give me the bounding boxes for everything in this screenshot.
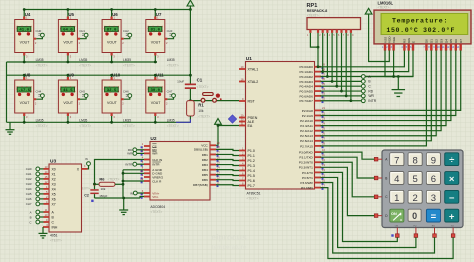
svg-text:<TEXT>: <TEXT> — [167, 124, 179, 128]
pin U2 VCC — [201, 141, 220, 148]
node RST junction — [189, 99, 192, 102]
svg-text:P1.5: P1.5 — [248, 174, 255, 178]
pin U3 X7 terminal CH7 — [26, 200, 56, 207]
wire GND rail row2 — [7, 121, 191, 123]
pin keypad column 1 — [396, 228, 400, 238]
pin U2 VIN+ — [141, 189, 160, 196]
pin U2 DB1 — [202, 150, 220, 157]
svg-text:0: 0 — [412, 211, 417, 221]
pin U1 P3.7/RD — [301, 183, 325, 190]
microcontroller U1 AT89C51 — [246, 56, 315, 200]
svg-text:VIN-: VIN- — [152, 195, 158, 199]
wire DB5 to P1.5 — [216, 174, 239, 177]
pin U1 P0.1/AD1 — [300, 67, 326, 74]
svg-text:X7: X7 — [52, 202, 56, 206]
wire RP1 pin2 to P0.0 — [318, 33, 321, 67]
resistor R1 — [187, 101, 211, 120]
wire LCD D7 to P2.0 — [321, 50, 461, 110]
svg-text:VOUT: VOUT — [151, 101, 162, 105]
wire LCD D0 to P2.7 — [321, 50, 427, 145]
svg-text:4: 4 — [394, 174, 399, 185]
svg-text:RST: RST — [248, 99, 256, 103]
svg-text:9: 9 — [431, 155, 436, 166]
pin U1 PSEN — [239, 113, 258, 120]
svg-text:INH: INH — [52, 225, 58, 229]
pin LCD VSS — [382, 37, 387, 51]
svg-text:P1.0: P1.0 — [248, 149, 255, 153]
svg-text:<TEXT>: <TEXT> — [197, 85, 209, 89]
wire LCD D6 to P2.1 — [321, 50, 456, 115]
svg-text:P2.3/A11: P2.3/A11 — [300, 124, 313, 128]
svg-text:PQ: PQ — [413, 225, 416, 227]
svg-text:Temperature:: Temperature: — [392, 17, 448, 24]
pin keypad column 3 — [433, 228, 437, 238]
pin U1 P2.7/A15 — [300, 142, 325, 149]
terminal WR at U2 — [127, 152, 144, 156]
wire GND left vertical — [6, 62, 8, 122]
pin U3 X5 terminal CH5 — [26, 190, 56, 197]
capacitor C2 — [78, 183, 108, 202]
LM35 temperature sensor U11 — [146, 73, 179, 128]
wire EA — [218, 125, 239, 127]
svg-text:P3.5/T1: P3.5/T1 — [302, 176, 313, 180]
pin RP1 7 — [340, 30, 344, 37]
pin U2 DB4 — [202, 165, 220, 172]
pin U1 P3.3/INT1 — [299, 163, 326, 170]
pin U1 XTAL1 — [239, 65, 258, 72]
svg-text:2: 2 — [412, 193, 417, 204]
svg-text:X2: X2 — [52, 177, 56, 181]
pin LCD D6 — [451, 39, 458, 51]
svg-text:P1.1: P1.1 — [248, 154, 255, 158]
pin U2 VIN- — [141, 192, 159, 199]
pin U2 D GND — [140, 169, 163, 176]
pin U3 X0 terminal CH0 — [26, 165, 56, 172]
pin U1 P2.4/A12 — [300, 126, 325, 133]
pin U1 P0.2/AD2 — [300, 72, 326, 79]
pin LCD RS — [401, 39, 406, 51]
pin RP1 2 — [317, 30, 321, 37]
svg-text:P2.6/A14: P2.6/A14 — [300, 139, 313, 143]
svg-text:U3: U3 — [50, 159, 56, 165]
svg-text:CH4: CH4 — [26, 187, 32, 191]
pin U1 P1.6 — [239, 176, 255, 183]
svg-text:<TEXT>: <TEXT> — [247, 196, 259, 200]
svg-text:ON: ON — [395, 225, 399, 227]
pin U3 INH to ground — [39, 224, 58, 238]
svg-text:<TEXT>: <TEXT> — [123, 63, 135, 67]
svg-text:<TEXT>: <TEXT> — [108, 177, 120, 181]
svg-text:LM35: LM35 — [123, 58, 131, 62]
svg-text:10uF: 10uF — [177, 79, 184, 83]
wire VCC vertical to C1 — [189, 10, 191, 85]
pin U1 P2.1/A9 — [302, 111, 326, 118]
terminal C at U1 — [337, 84, 372, 88]
wire GND rail row1 — [7, 61, 158, 63]
pin LCD D1 — [428, 39, 433, 51]
svg-text:VOUT: VOUT — [63, 101, 74, 105]
wire U2 ground rail — [95, 197, 141, 199]
pin U3 X4 terminal CH4 — [26, 185, 56, 192]
pin U1 P2.0/A8 — [302, 106, 326, 113]
pin U1 P2.5/A13 — [300, 132, 325, 139]
svg-text:P0.4/AD4: P0.4/AD4 — [300, 85, 314, 89]
pin U1 P3.6/WR — [300, 178, 325, 185]
wire DB7 to P1.7 — [216, 184, 239, 187]
svg-text:<TEXT>: <TEXT> — [36, 124, 48, 128]
ground at LCD — [397, 75, 400, 78]
pin RP1 5 — [331, 30, 335, 37]
pin U1 P1.1 — [239, 151, 255, 158]
resistor pack RP1 RESPACK-8 — [307, 3, 361, 30]
svg-text:RS: RS — [432, 225, 436, 227]
svg-text:VOUT: VOUT — [20, 101, 31, 105]
svg-text:X3: X3 — [52, 182, 56, 186]
svg-text:CH7: CH7 — [167, 90, 173, 94]
LM35 temperature sensor U6 — [102, 8, 135, 67]
svg-text:DB7(MSB): DB7(MSB) — [193, 183, 208, 187]
wire LCD D4 to P2.3 — [321, 50, 447, 125]
svg-text:WR: WR — [127, 152, 133, 156]
pin U2 CS — [141, 142, 157, 149]
pin U1 P0.7/AD7 — [300, 97, 326, 104]
pin U2 CLK R — [140, 177, 162, 184]
svg-text:VEE: VEE — [392, 37, 396, 43]
svg-text:LM35: LM35 — [36, 58, 44, 62]
svg-text:<TEXT>: <TEXT> — [198, 114, 210, 118]
svg-text:CH6: CH6 — [123, 90, 129, 94]
wire DB1 to P1.1 — [216, 154, 239, 155]
svg-text:VOUT: VOUT — [20, 41, 31, 45]
svg-text:VOUT: VOUT — [63, 41, 74, 45]
svg-text:P3.0/RXD: P3.0/RXD — [299, 151, 314, 155]
pin U1 P0.3/AD3 — [300, 77, 326, 84]
terminal INTR at U2 — [125, 162, 144, 166]
svg-text:U1: U1 — [246, 56, 252, 62]
wire RST row — [190, 100, 239, 102]
pin LCD D3 — [437, 39, 444, 51]
wire LCD D2 to P2.5 — [321, 50, 437, 135]
push button reset — [201, 93, 222, 103]
wire VSS to ground — [385, 50, 398, 76]
pin U2 DB7(MSB) — [193, 181, 220, 188]
svg-text:CH4: CH4 — [36, 90, 42, 94]
svg-text:D7: D7 — [459, 39, 463, 43]
svg-text:temperature: temperature — [212, 245, 247, 251]
pin U1 EA — [239, 121, 253, 128]
svg-text:CH2: CH2 — [123, 29, 129, 33]
svg-text:DB3: DB3 — [202, 163, 208, 167]
svg-text:CH3: CH3 — [26, 182, 32, 186]
pin U2 DB3 — [202, 160, 220, 167]
svg-text:6: 6 — [431, 174, 436, 185]
wire VCC to U2 — [216, 124, 218, 145]
ground at U2 — [123, 198, 125, 210]
svg-text:CH3: CH3 — [167, 29, 173, 33]
wire DB3 to P1.3 — [216, 164, 239, 167]
wire P0.2 to LCD E — [327, 50, 413, 76]
wire RP1 pin5 to P0.3 — [321, 33, 333, 81]
svg-text:LM35: LM35 — [123, 119, 131, 123]
svg-text:CH2: CH2 — [26, 177, 32, 181]
svg-text:IN: IN — [130, 191, 133, 195]
svg-text:C: C — [29, 220, 31, 224]
pin U3 B terminal — [30, 213, 55, 220]
svg-text:INTR: INTR — [125, 163, 133, 167]
pin RP1 6 — [336, 30, 340, 37]
pin U1 P1.3 — [239, 161, 255, 168]
wire D GND — [123, 172, 144, 174]
pin U1 P3.5/T1 — [302, 173, 325, 180]
wire VIN- to ground — [140, 197, 144, 199]
svg-text:DB6: DB6 — [202, 178, 208, 182]
svg-text:-17.5: -17.5 — [18, 89, 31, 93]
svg-text:CH0: CH0 — [26, 167, 32, 171]
pin U3 C terminal — [29, 218, 54, 225]
svg-text:XTAL1: XTAL1 — [248, 67, 259, 71]
pin keypad row D — [374, 214, 382, 218]
wire R1 to ground rail (blue elbow) — [176, 119, 190, 122]
pin U1 P0.4/AD4 — [300, 82, 326, 89]
terminal A at U1 — [361, 75, 413, 79]
svg-text:<TEXT>: <TEXT> — [167, 63, 179, 67]
svg-text:VOUT: VOUT — [107, 41, 118, 45]
svg-text:LM35: LM35 — [79, 119, 87, 123]
svg-text:LM35: LM35 — [36, 119, 44, 123]
power terminal VCC for LCD — [365, 8, 372, 14]
pin U1 P0.5/AD5 — [300, 87, 326, 94]
wire RP1 pin9 to P0.7 — [321, 33, 351, 101]
svg-text:INTR: INTR — [152, 163, 160, 167]
wire P3.1 to keypad row 2 — [321, 157, 375, 178]
wire P3.4 to keypad column 1 — [321, 172, 398, 241]
svg-text:D1: D1 — [430, 39, 434, 43]
wire DB2 to P1.2 — [216, 160, 239, 161]
svg-text:<TEXT>: <TEXT> — [50, 238, 62, 242]
svg-text:×: × — [449, 174, 455, 185]
pin U1 P3.4/T0 — [302, 168, 325, 175]
svg-text:CLK IN: CLK IN — [152, 158, 162, 162]
wire P3.6 to keypad column 3 — [321, 183, 435, 253]
svg-text:CH1: CH1 — [26, 172, 32, 176]
terminal B at U1 — [332, 79, 371, 83]
pin U2 DB2 — [202, 155, 220, 162]
svg-text:<TEXT>: <TEXT> — [150, 210, 162, 214]
terminal WR at U1 — [346, 94, 374, 98]
svg-text:P1.7: P1.7 — [248, 184, 255, 188]
pin keypad row B — [374, 176, 382, 180]
svg-text:P2.5/A13: P2.5/A13 — [300, 134, 313, 138]
svg-text:+: + — [449, 212, 455, 223]
LM35 temperature sensor U10 — [102, 73, 135, 128]
wire A GND — [123, 169, 144, 171]
wire P3.3 to keypad row 4 — [321, 167, 375, 215]
terminal IN at U2 — [130, 191, 144, 195]
analog multiplexer U3 4051 — [49, 159, 82, 243]
svg-text:LM35: LM35 — [79, 58, 87, 62]
pin U2 INTR — [141, 160, 161, 167]
svg-text:CH5: CH5 — [26, 192, 32, 196]
svg-text:P3.7/RD: P3.7/RD — [301, 186, 313, 190]
svg-text:RD: RD — [368, 89, 373, 93]
wire RP1 pin1 — [310, 33, 318, 47]
wire A GND vertical to ground rail — [122, 170, 124, 198]
wire P0.0 to LCD RS — [318, 50, 404, 66]
LM35 temperature sensor U4 — [15, 8, 48, 67]
svg-text:D3: D3 — [439, 39, 443, 43]
svg-text:10k: 10k — [101, 187, 106, 191]
pin U1 P2.2/A10 — [300, 116, 325, 123]
svg-text:P3.3/INT1: P3.3/INT1 — [299, 166, 313, 170]
svg-text:CH0: CH0 — [36, 29, 42, 33]
svg-text:c: c — [400, 218, 402, 222]
pin U3 X1 terminal CH1 — [26, 170, 56, 177]
terminal RD at U2 — [128, 148, 144, 152]
pin LCD D2 — [433, 39, 438, 51]
pin U3 X6 terminal CH6 — [26, 195, 56, 202]
LM35 temperature sensor U5 — [58, 8, 91, 67]
LCD display LM016L — [374, 0, 471, 44]
svg-text:P0.1/AD1: P0.1/AD1 — [300, 70, 314, 74]
svg-text:7: 7 — [394, 155, 399, 166]
svg-text:CH6: CH6 — [26, 197, 32, 201]
svg-text:CH7: CH7 — [26, 202, 32, 206]
svg-text:WR: WR — [368, 94, 374, 98]
pin LCD D4 — [442, 39, 449, 51]
pin U1 P1.4 — [239, 166, 255, 173]
node keypad blue marker — [391, 234, 393, 236]
svg-text:÷: ÷ — [449, 155, 454, 166]
terminal RD at U1 — [342, 89, 374, 93]
svg-text:IN: IN — [85, 157, 88, 161]
wire LCD D1 to P2.6 — [321, 50, 432, 140]
svg-text:CLK R: CLK R — [152, 179, 162, 183]
svg-text:B: B — [30, 215, 32, 219]
svg-text:DB1: DB1 — [202, 153, 208, 157]
pin U1 P3.0/RXD — [299, 148, 325, 155]
pin RP1 1 — [307, 30, 312, 37]
wire P3.5 to keypad column 2 — [321, 177, 416, 247]
wire DB6 to P1.6 — [216, 179, 239, 182]
svg-text:P2.2/A10: P2.2/A10 — [300, 119, 313, 123]
wire DB4 to P1.4 — [216, 169, 239, 172]
svg-text:C2: C2 — [84, 193, 89, 197]
pin keypad row A — [374, 157, 382, 161]
svg-text:D6: D6 — [454, 39, 458, 43]
pin RP1 9 — [350, 30, 354, 37]
svg-text:P2.0/A8: P2.0/A8 — [302, 109, 313, 113]
svg-text:R6: R6 — [99, 176, 105, 181]
pin U3 X3 terminal CH3 — [26, 180, 56, 187]
pin RP1 8 — [345, 30, 349, 37]
power terminal VCC at EA — [215, 119, 222, 125]
svg-text:E: E — [411, 41, 415, 43]
svg-text:RESPACK-8: RESPACK-8 — [307, 9, 328, 13]
svg-text:4051: 4051 — [50, 234, 58, 238]
svg-text:LM35: LM35 — [167, 119, 175, 123]
pin U2 A GND — [141, 166, 163, 173]
capacitor C1 — [177, 78, 208, 101]
svg-text:DB0(LSB): DB0(LSB) — [194, 148, 208, 152]
LM35 temperature sensor U8 — [15, 73, 48, 128]
svg-text:10k: 10k — [198, 109, 204, 113]
wire P3.7 to keypad column 4 — [321, 188, 454, 259]
pin U1 P3.2/INT0 — [299, 158, 326, 165]
pin U1 P1.2 — [239, 156, 255, 163]
pin U1 P2.3/A11 — [300, 121, 325, 128]
svg-text:LM016L: LM016L — [378, 0, 394, 5]
svg-text:X1: X1 — [52, 172, 56, 176]
svg-text:<TEXT>: <TEXT> — [307, 13, 319, 17]
wire VDD — [369, 14, 390, 62]
svg-text:150.0°C 302.0°F: 150.0°C 302.0°F — [386, 26, 455, 34]
pin U1 P1.5 — [239, 171, 255, 178]
svg-text:D4: D4 — [444, 39, 448, 43]
svg-text:P1.3: P1.3 — [248, 164, 255, 168]
svg-text:=: = — [431, 212, 437, 223]
pin LCD VDD — [386, 36, 391, 51]
pin RP1 3 — [322, 30, 326, 37]
wire RP1 pin3 to P0.1 — [321, 33, 323, 72]
svg-text:AT89C51: AT89C51 — [247, 192, 261, 196]
svg-text:−: − — [449, 193, 455, 204]
pin U3 X2 terminal CH2 — [26, 175, 56, 182]
terminal INTR at U1 — [351, 99, 377, 103]
svg-text:DB4: DB4 — [202, 168, 208, 172]
svg-text:P1.4: P1.4 — [248, 169, 255, 173]
svg-text:DB5: DB5 — [202, 173, 208, 177]
LM35 temperature sensor U7 — [146, 8, 179, 67]
svg-text:INTR: INTR — [368, 99, 376, 103]
wire LCD D5 to P2.2 — [321, 50, 451, 120]
pin U2 DB0(LSB) — [194, 145, 220, 152]
pin U3 X output terminal IN — [82, 157, 91, 170]
svg-text:D5: D5 — [449, 39, 453, 43]
svg-text:P0.6/AD6: P0.6/AD6 — [300, 94, 314, 98]
svg-text:P0.0/AD0: P0.0/AD0 — [300, 65, 314, 69]
wire CLK R — [123, 180, 144, 182]
wire P3.2 to keypad row 3 — [321, 162, 375, 197]
svg-text:elprocus: elprocus — [211, 232, 247, 242]
pin U1 P1.7 — [239, 181, 255, 188]
svg-text:P0.7/AD7: P0.7/AD7 — [300, 99, 314, 103]
pin U2 DB5 — [202, 170, 220, 177]
svg-text:<TEXT>: <TEXT> — [79, 124, 91, 128]
pin LCD RW — [406, 38, 411, 51]
wire RP1 pin7 to P0.5 — [321, 33, 342, 91]
svg-text:DB2: DB2 — [202, 158, 208, 162]
pin U1 P0.6/AD6 — [300, 92, 326, 99]
svg-text:<TEXT>: <TEXT> — [123, 124, 135, 128]
LM35 temperature sensor U9 — [58, 73, 91, 128]
svg-text:D2: D2 — [435, 39, 439, 43]
svg-text:VOUT: VOUT — [107, 101, 118, 105]
svg-text:<TEXT>: <TEXT> — [378, 6, 390, 10]
svg-text:TU: TU — [451, 225, 454, 227]
wire RP1 pin6 to P0.4 — [321, 33, 337, 86]
svg-text:P0.2/AD2: P0.2/AD2 — [300, 75, 314, 79]
pin U2 DB6 — [202, 176, 220, 183]
svg-text:8: 8 — [412, 155, 417, 166]
wire VEE to ground — [393, 50, 395, 76]
wire RP1 pin4 to P0.2 — [321, 33, 328, 77]
svg-text:EA: EA — [248, 124, 253, 128]
svg-text:X5: X5 — [52, 192, 56, 196]
pin U2 WR — [141, 149, 159, 156]
pin U3 A terminal — [30, 208, 55, 215]
svg-text:X0: X0 — [52, 167, 56, 171]
pin LCD VEE — [391, 37, 396, 51]
